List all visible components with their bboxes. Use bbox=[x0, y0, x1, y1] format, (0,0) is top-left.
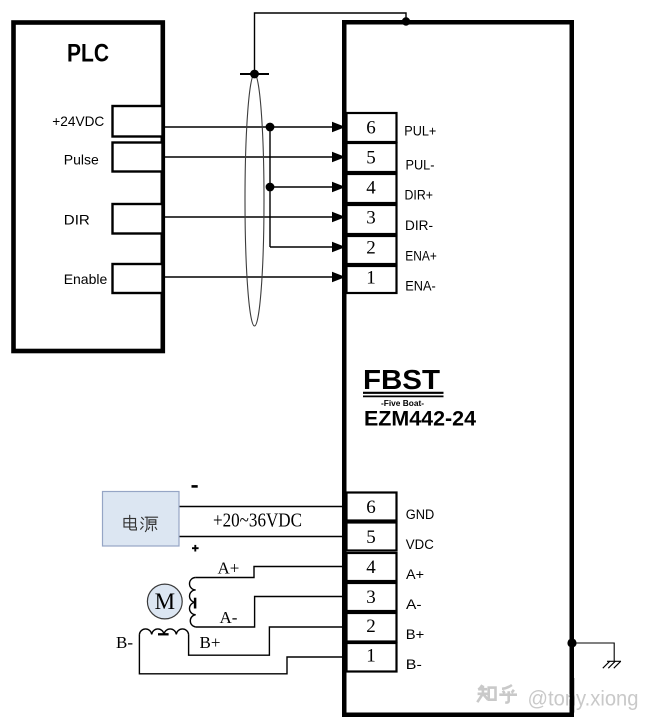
svg-text:A-: A- bbox=[220, 608, 238, 627]
svg-text:B+: B+ bbox=[200, 633, 221, 652]
svg-text:FBST: FBST bbox=[363, 364, 440, 395]
svg-text:5: 5 bbox=[366, 527, 376, 548]
svg-text:6: 6 bbox=[366, 118, 376, 139]
svg-text:6: 6 bbox=[366, 497, 376, 518]
svg-text:DIR: DIR bbox=[64, 212, 90, 228]
svg-text:5: 5 bbox=[366, 148, 376, 169]
svg-text:B-: B- bbox=[406, 657, 422, 672]
svg-text:ENA-: ENA- bbox=[405, 279, 436, 294]
svg-text:PLC: PLC bbox=[67, 40, 109, 68]
svg-text:DIR+: DIR+ bbox=[405, 188, 434, 203]
svg-text:1: 1 bbox=[366, 646, 376, 667]
svg-text:GND: GND bbox=[406, 507, 435, 522]
svg-text:4: 4 bbox=[366, 557, 376, 578]
svg-text:4: 4 bbox=[366, 178, 376, 199]
svg-text:A+: A+ bbox=[406, 567, 424, 582]
svg-text:A-: A- bbox=[406, 597, 422, 612]
svg-text:ENA+: ENA+ bbox=[405, 248, 437, 263]
svg-text:Enable: Enable bbox=[64, 271, 108, 287]
svg-text:PUL+: PUL+ bbox=[404, 123, 436, 138]
svg-text:3: 3 bbox=[366, 587, 376, 608]
svg-text:A+: A+ bbox=[218, 559, 240, 578]
svg-text:2: 2 bbox=[366, 616, 376, 637]
svg-text:Pulse: Pulse bbox=[64, 152, 99, 168]
svg-text:VDC: VDC bbox=[406, 537, 434, 552]
svg-text:PUL-: PUL- bbox=[406, 157, 435, 172]
svg-text:+20~36VDC: +20~36VDC bbox=[213, 510, 302, 532]
svg-text:EZM442-24: EZM442-24 bbox=[364, 407, 476, 431]
svg-text:DIR-: DIR- bbox=[405, 218, 433, 233]
svg-text:2: 2 bbox=[366, 238, 376, 259]
svg-text:3: 3 bbox=[366, 208, 376, 229]
svg-text:1: 1 bbox=[366, 268, 376, 289]
svg-text:+24VDC: +24VDC bbox=[52, 113, 104, 129]
svg-text:@tony.xiong: @tony.xiong bbox=[528, 687, 639, 710]
svg-text:B+: B+ bbox=[406, 627, 425, 642]
svg-text:B-: B- bbox=[116, 633, 133, 652]
svg-text:M: M bbox=[155, 589, 175, 614]
